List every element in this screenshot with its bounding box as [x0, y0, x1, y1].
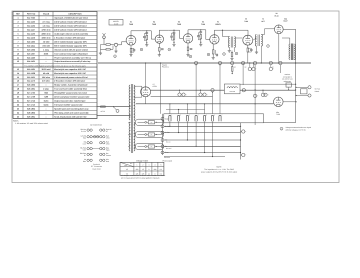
heater bus — [98, 63, 311, 69]
svg-text:20-20 mfd: 20-20 mfd — [42, 68, 52, 71]
bus terminal E2 — [218, 61, 221, 64]
svg-text:7025: 7025 — [177, 23, 181, 26]
bus terminal E4 — [241, 61, 244, 64]
hum balance pot R44 — [286, 83, 291, 91]
filter cap C20 — [248, 62, 253, 70]
svg-text:7199: 7199 — [44, 96, 48, 99]
callout 5b — [207, 53, 210, 56]
svg-text:5V: 5V — [128, 146, 130, 148]
B plus terminal E8 — [242, 89, 245, 92]
connector pin 2 — [178, 109, 182, 121]
svg-text:7199: 7199 — [276, 113, 280, 116]
svg-text:VALUE: VALUE — [43, 13, 50, 16]
terminal 8 ohm — [161, 125, 170, 128]
svg-text:Output vacuum tube, matched pa: Output vacuum tube, matched pair — [54, 99, 85, 102]
ground terminal column — [162, 114, 164, 155]
interstage transformer T1 — [223, 37, 243, 53]
svg-text:7025: 7025 — [44, 92, 48, 95]
svg-text:015-1521: 015-1521 — [27, 68, 35, 71]
wire bus to choke — [242, 63, 244, 85]
svg-text:100K ohm: 100K ohm — [41, 36, 50, 39]
tube V2 — [155, 35, 163, 43]
svg-text:7: 7 — [17, 40, 18, 43]
svg-text:2.7 meg: 2.7 meg — [42, 21, 50, 24]
svg-text:For amplifiers with chassis se: For amplifiers with chassis serial numbe… — [24, 64, 85, 67]
reservoir cap C23b — [203, 93, 208, 96]
V2 plate wire — [159, 30, 168, 35]
svg-text:Volume control with AC power s: Volume control with AC power switch — [54, 48, 88, 51]
connector pin 1 — [169, 103, 173, 121]
svg-text:011-1147: 011-1147 — [27, 29, 35, 32]
V1 plate wire — [131, 31, 141, 36]
svg-text:011-1156: 011-1156 — [27, 36, 35, 39]
grid resistor R1 — [104, 44, 114, 46]
svg-text:7025: 7025 — [152, 23, 156, 26]
reservoir cap C22 — [178, 90, 183, 97]
svg-text:220K ohm: 220K ohm — [41, 33, 50, 36]
svg-text:Tone control, linear taper w/h: Tone control, linear taper w/hardware — [54, 52, 87, 55]
coupling cap C2 stack — [141, 30, 151, 46]
svg-text:011-1125: 011-1125 — [27, 21, 35, 24]
svg-text:22: 22 — [17, 103, 19, 106]
svg-text:015-1528: 015-1528 — [27, 72, 35, 75]
terminal Com — [161, 151, 169, 154]
svg-text:XX: XX — [151, 122, 153, 124]
voltage table — [120, 159, 166, 179]
svg-text:017-1715: 017-1715 — [27, 103, 35, 106]
AC line input — [97, 106, 131, 116]
svg-text:18: 18 — [17, 88, 19, 91]
svg-text:018-1802: 018-1802 — [27, 111, 35, 114]
connector pin 7 — [219, 64, 223, 121]
rectifier tube V7 — [134, 62, 151, 103]
svg-text:13: 13 — [17, 68, 19, 71]
svg-text:AC IN: AC IN — [101, 110, 106, 113]
svg-text:7199: 7199 — [244, 20, 248, 23]
output tube V6 right label — [283, 17, 287, 22]
pin 3 lower wire — [187, 121, 188, 140]
svg-text:.005 mfd: .005 mfd — [42, 44, 51, 47]
svg-text:Full wave rectifier vacuum tub: Full wave rectifier vacuum tube — [54, 103, 82, 106]
pin 2 lower wire — [178, 121, 179, 133]
socket pinout chart — [80, 124, 112, 171]
tube V3 — [183, 34, 192, 43]
svg-text:19: 19 — [17, 92, 19, 95]
wire bus to hum pot — [279, 65, 281, 73]
connector pin 6 — [211, 91, 215, 121]
coupling cap C8 stack — [197, 29, 206, 46]
terminal strip wires — [164, 123, 241, 160]
parts list table text — [16, 13, 92, 119]
svg-text:Rotary switch, 3 position w/ha: Rotary switch, 3 position w/hardware — [54, 84, 87, 87]
footnote legend — [280, 126, 312, 132]
svg-text:Voltage Table: Voltage Table — [136, 159, 149, 162]
terminal Ctr — [161, 145, 168, 148]
rectifier tube V7 label — [153, 83, 157, 88]
svg-text:PART NO: PART NO — [27, 13, 36, 16]
svg-text:011-1170: 011-1170 — [27, 80, 35, 83]
heater cable 6.3V — [128, 131, 163, 137]
svg-text:AC Connector: AC Connector — [90, 124, 102, 127]
filter cap C20b — [252, 63, 257, 71]
svg-text:+: + — [245, 130, 246, 133]
svg-text:011-7025: 011-7025 — [27, 17, 35, 20]
svg-text:+: + — [255, 68, 256, 71]
reservoir cap C23 — [199, 90, 204, 97]
svg-text:DRVR: DRVR — [215, 23, 221, 26]
terminal Gnd — [161, 117, 168, 120]
cap on feed wire — [253, 94, 258, 97]
wire bus down long — [255, 65, 256, 125]
svg-text:+: + — [257, 95, 258, 98]
svg-text:Electrolytic can capacitor 450: Electrolytic can capacitor 450 V DC — [54, 68, 86, 71]
callout 6b — [235, 52, 238, 55]
svg-text:7199: 7199 — [201, 23, 205, 26]
pin 1 lower wire — [169, 121, 170, 127]
svg-text:1/2 W carbon resistor 10% tole: 1/2 W carbon resistor 10% tolerance — [54, 29, 86, 32]
pin 5 lower wire — [204, 121, 205, 153]
svg-text:Knob, black plastic with point: Knob, black plastic with pointer line — [54, 115, 86, 118]
pin box tie line — [166, 109, 205, 111]
svg-text:2 amp: 2 amp — [43, 88, 49, 91]
svg-text:(rear view): (rear view) — [93, 167, 101, 170]
V1 cathode network — [129, 46, 135, 57]
svg-text:011-1133: 011-1133 — [27, 33, 35, 36]
notes under parts table — [13, 119, 48, 125]
bypass cap C31 — [241, 153, 247, 156]
V4 plate wire — [214, 30, 248, 37]
bypass cap C30 — [241, 130, 247, 133]
phone jack label — [163, 156, 172, 163]
svg-text:40 mfd: 40 mfd — [43, 72, 50, 75]
callout 2 — [114, 55, 117, 58]
svg-text:.02 mfd: .02 mfd — [43, 40, 50, 43]
callout 3 — [140, 48, 143, 51]
power transformer PT — [129, 84, 135, 153]
drawing frame — [12, 11, 339, 183]
svg-text:019-1901: 019-1901 — [27, 115, 35, 118]
svg-text:Gnd: Gnd — [165, 118, 168, 121]
svg-text:Pilot lamp, jewel and socket a: Pilot lamp, jewel and socket assembly — [54, 111, 89, 114]
terminal 4 ohm — [161, 131, 170, 134]
svg-text:11: 11 — [17, 56, 19, 59]
filter choke L1 — [224, 84, 296, 94]
footswitch jack — [295, 86, 320, 97]
svg-text:+: + — [245, 154, 246, 157]
filter cap C24b — [264, 93, 269, 96]
callout 6 — [223, 53, 226, 56]
input jack J1 — [103, 33, 106, 44]
heater feed wire — [160, 62, 161, 113]
svg-text:8: 8 — [17, 44, 18, 47]
bias tube V8 — [136, 97, 297, 107]
svg-text:+: + — [268, 94, 269, 97]
svg-text:250K: 250K — [44, 52, 49, 55]
svg-text:Driver and phase inverter vacu: Driver and phase inverter vacuum tube — [54, 96, 89, 99]
svg-text:017-1709: 017-1709 — [27, 96, 35, 99]
svg-text:Pilot D.C.: Pilot D.C. — [162, 66, 170, 69]
output tube V6 — [274, 25, 283, 64]
tube V1 label — [129, 21, 133, 26]
input 2 resistor R2 — [101, 46, 114, 51]
svg-text:600 V molded tubular capacitor: 600 V molded tubular capacitor 20% — [54, 44, 87, 47]
svg-text:400 V molded tubular capacitor: 400 V molded tubular capacitor 20% — [54, 40, 87, 43]
svg-text:15: 15 — [17, 76, 19, 79]
svg-text:Speaker jack and mounting plat: Speaker jack and mounting plate assy — [54, 107, 89, 110]
parts list table grid — [13, 12, 97, 119]
svg-text:E2: E2 — [234, 66, 236, 68]
svg-text:013-1302: 013-1302 — [27, 48, 35, 51]
svg-text:011-1134: 011-1134 — [27, 25, 36, 28]
bus terminal E6 — [269, 61, 272, 64]
wire coupler2 to V3 grid — [180, 30, 184, 38]
svg-text:470 ohm: 470 ohm — [42, 80, 50, 83]
secondary feedback wire — [264, 29, 297, 122]
svg-text:5 W wirewound power resistor 5: 5 W wirewound power resistor 5% tol — [54, 76, 88, 79]
svg-text:+: + — [273, 68, 274, 71]
wire coupler3 to V4 grid — [206, 30, 210, 40]
reservoir cap C22b — [182, 93, 187, 96]
output transformer T2 label — [261, 18, 265, 23]
tube V4 label — [201, 21, 205, 26]
svg-text:16: 16 — [17, 80, 19, 83]
heater cable 5V — [128, 143, 163, 149]
V3 plate wire — [188, 30, 197, 34]
V3 cathode network — [186, 43, 192, 56]
tube V4 — [210, 35, 219, 44]
svg-text:1 meg: 1 meg — [43, 48, 49, 51]
wire coupler1 to V2 grid — [151, 31, 155, 39]
svg-text:Audio taper volume control ass: Audio taper volume control assembly — [54, 33, 89, 36]
interstage transformer T2 — [253, 29, 275, 64]
svg-text:017-1705: 017-1705 — [27, 92, 35, 95]
bus terminal labels — [234, 66, 274, 68]
svg-text:3: 3 — [17, 25, 18, 28]
svg-text:17: 17 — [17, 84, 19, 87]
svg-text:Phones: Phones — [164, 156, 170, 159]
V2 cathode network — [158, 43, 164, 56]
svg-text:7025: 7025 — [129, 23, 133, 26]
bus terminal E7 — [279, 61, 282, 64]
wire labels — [166, 141, 171, 150]
svg-text:1 W carbon resistor 10% tolera: 1 W carbon resistor 10% tolerance — [54, 36, 85, 39]
callout 4 — [168, 48, 171, 51]
svg-text:XX: XX — [151, 146, 153, 148]
svg-text:6.3V: 6.3V — [128, 134, 131, 136]
callout 7 — [267, 45, 270, 48]
dropper resistor R40 — [231, 65, 233, 74]
bus terminal E5 — [253, 61, 256, 64]
resistor under T1 — [230, 51, 233, 61]
driver tube V5 label — [244, 18, 248, 23]
svg-text:12: 12 — [17, 60, 19, 63]
ground input — [99, 45, 104, 55]
svg-text:10: 10 — [17, 52, 19, 55]
B plus terminal E9 — [211, 89, 214, 92]
svg-text:Electrolytic can capacitor 500: Electrolytic can capacitor 500 V DC — [54, 72, 86, 75]
svg-text:9: 9 — [17, 48, 18, 51]
svg-text:016-1601: 016-1601 — [27, 88, 35, 91]
svg-text:23: 23 — [17, 107, 19, 110]
svg-text:1. All resistors 1/2 watt 10%: 1. All resistors 1/2 watt 10% unless not… — [15, 122, 48, 125]
output transformer OT — [282, 29, 296, 60]
svg-text:016-1602: 016-1602 — [27, 84, 35, 87]
driver tube V5 — [243, 35, 253, 63]
svg-text:011-1161: 011-1161 — [27, 76, 35, 79]
output tube V6 label — [275, 12, 279, 17]
svg-text:470K ohm: 470K ohm — [41, 29, 50, 32]
interstage transformer T1 label — [215, 21, 221, 26]
svg-text:+: + — [207, 93, 208, 96]
svg-text:2: 2 — [17, 21, 18, 24]
svg-text:10K ohm: 10K ohm — [42, 76, 50, 79]
filter cap C24 — [261, 90, 266, 97]
svg-text:XX: XX — [151, 134, 153, 136]
connector pin 3 — [186, 103, 190, 121]
schematic legend box — [109, 20, 123, 26]
svg-text:012-1211: 012-1211 — [27, 44, 35, 47]
svg-text:Output transformer assembly 8: Output transformer assembly 8 ohm tap — [54, 60, 91, 63]
filter rail — [151, 95, 213, 97]
heater cable 6.3V — [128, 119, 163, 125]
coupling cap C5 stack — [169, 30, 180, 47]
tube V3 label — [177, 21, 181, 26]
svg-text:6: 6 — [17, 36, 18, 39]
V4 cathode network — [212, 44, 219, 59]
B plus line from rectifier — [151, 89, 225, 91]
svg-text:GZ34: GZ34 — [153, 85, 157, 88]
svg-text:2 W carbon resistor 10% tolera: 2 W carbon resistor 10% tolerance — [54, 80, 85, 83]
svg-text:018-1804: 018-1804 — [27, 107, 36, 110]
tube V2 label — [152, 21, 156, 26]
svg-text:25: 25 — [17, 115, 19, 118]
svg-text:E3: E3 — [245, 66, 247, 68]
svg-text:1/2 W carbon resistor 10% tole: 1/2 W carbon resistor 10% tolerance — [54, 21, 86, 24]
svg-text:1: 1 — [17, 17, 18, 20]
svg-text:012-1205: 012-1205 — [27, 40, 35, 43]
svg-text:Power transformer assembly 117: Power transformer assembly 117 V 60 cy — [54, 56, 92, 59]
svg-text:Preamplifier vacuum tube, low: Preamplifier vacuum tube, low noise — [54, 92, 87, 95]
filter cap C21 — [269, 65, 274, 71]
bias tube V8 label — [276, 111, 280, 116]
volume pot P1 — [114, 42, 126, 53]
svg-text:014-1420: 014-1420 — [27, 56, 35, 59]
svg-text:014-1431: 014-1431 — [27, 60, 35, 63]
svg-text:013-1307: 013-1307 — [27, 52, 35, 55]
svg-text:+: + — [265, 94, 266, 97]
tube V1 — [126, 35, 136, 45]
bus terminal E3 — [231, 61, 234, 64]
svg-text:+: + — [186, 93, 187, 96]
svg-text:20: 20 — [17, 96, 19, 99]
svg-text:Fuse and fuse holder assembly: Fuse and fuse holder assembly 3AG — [54, 88, 87, 91]
terminal pin box — [164, 114, 264, 123]
callout 5 — [189, 55, 192, 58]
pin 6 lower wire — [212, 121, 213, 157]
svg-text:1/2 W carbon resistor 10% tole: 1/2 W carbon resistor 10% tolerance — [54, 25, 86, 28]
svg-text:1.5 meg: 1.5 meg — [42, 25, 50, 28]
svg-text:DESCRIPTION: DESCRIPTION — [69, 13, 83, 16]
terminal Htr — [161, 139, 168, 142]
connector pin 4 — [195, 64, 199, 121]
bus terminal E1 — [194, 61, 197, 64]
hum balance note — [282, 73, 293, 83]
impedance note — [201, 166, 238, 174]
svg-text:power output is 45 W at 5% T.H: power output is 45 W at 5% T.H.D. 8 ohm … — [201, 171, 238, 174]
svg-text:017-1712: 017-1712 — [27, 99, 35, 102]
connector pin 5 — [204, 103, 208, 121]
svg-text:Input jack, shielded phone typ: Input jack, shielded phone type w/nut — [54, 17, 88, 20]
pin 4 lower wire — [196, 121, 197, 147]
svg-text:6.3V: 6.3V — [128, 122, 131, 124]
svg-text:5: 5 — [17, 33, 18, 36]
svg-text:21: 21 — [17, 99, 19, 102]
